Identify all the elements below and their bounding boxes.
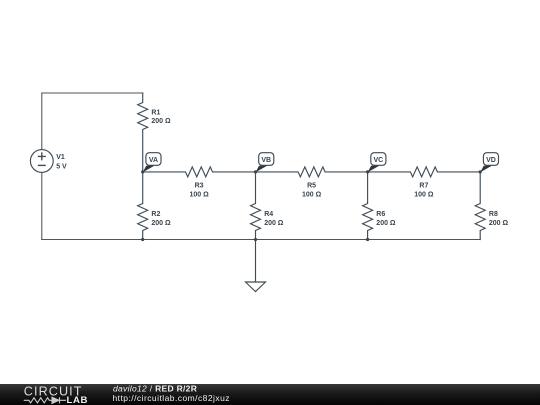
svg-text:V1: V1 (56, 154, 65, 161)
svg-text:200 Ω: 200 Ω (376, 220, 396, 227)
svg-text:LAB: LAB (67, 395, 89, 405)
wire left branch upper (V1 top lead) (41, 93, 43, 150)
resistor R1 (138, 93, 148, 172)
resistor R6 (363, 172, 373, 240)
svg-text:davilo12 / RED R/2R: davilo12 / RED R/2R (113, 384, 197, 394)
resistor R5 (256, 167, 368, 177)
svg-text:R1: R1 (151, 109, 160, 116)
footer bar (0, 384, 540, 405)
resistor R2 (138, 172, 148, 240)
svg-text:200 Ω: 200 Ω (264, 220, 284, 227)
node junction dot VB (254, 170, 257, 173)
svg-text:100 Ω: 100 Ω (302, 192, 322, 199)
svg-text:100 Ω: 100 Ω (189, 192, 209, 199)
svg-text:200 Ω: 200 Ω (489, 220, 509, 227)
junction dot bottom rail R6 (366, 238, 369, 241)
node flag VA (143, 153, 161, 173)
svg-text:200 Ω: 200 Ω (151, 220, 171, 227)
svg-text:VA: VA (149, 157, 158, 164)
svg-text:R3: R3 (195, 183, 204, 190)
svg-text:VB: VB (261, 157, 271, 164)
svg-text:R6: R6 (376, 211, 385, 218)
svg-text:5 V: 5 V (56, 163, 67, 170)
node junction dot VD (479, 170, 482, 173)
svg-text:R7: R7 (419, 183, 428, 190)
resistor R8 (475, 172, 485, 240)
svg-text:VC: VC (373, 157, 383, 164)
node flag VB (256, 153, 274, 173)
node junction dot VC (366, 170, 369, 173)
svg-text:http://circuitlab.com/c82jxuz: http://circuitlab.com/c82jxuz (113, 393, 230, 403)
ground (246, 240, 266, 292)
junction dot bottom rail R2 (141, 238, 144, 241)
svg-text:R4: R4 (264, 211, 273, 218)
junction dot bottom rail R4 / ground (254, 238, 257, 241)
resistor R7 (368, 167, 481, 177)
wire left branch lower (V1 bottom lead) (41, 172, 43, 239)
wire top rail V1 to R1 (42, 92, 143, 94)
wire bottom rail (42, 239, 480, 241)
node flag VC (368, 153, 386, 173)
resistor R3 (143, 167, 256, 177)
node flag VD (480, 153, 498, 173)
CircuitLab logo circuit glyph (resistor + diode) (24, 397, 66, 403)
svg-text:VD: VD (486, 157, 496, 164)
svg-text:100 Ω: 100 Ω (414, 192, 434, 199)
svg-text:R8: R8 (489, 211, 498, 218)
svg-text:200 Ω: 200 Ω (151, 118, 171, 125)
svg-text:R5: R5 (307, 183, 316, 190)
resistor R4 (251, 172, 261, 240)
voltage source V1 (30, 150, 53, 173)
node junction dot VA (141, 170, 144, 173)
svg-text:R2: R2 (151, 211, 160, 218)
